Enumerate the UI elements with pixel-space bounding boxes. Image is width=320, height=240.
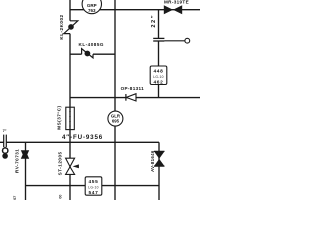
wire center vertical bbox=[114, 0, 116, 200]
svg-text:MR-319TE: MR-319TE bbox=[164, 0, 189, 4]
svg-text:LG-10: LG-10 bbox=[88, 185, 98, 189]
svg-text:448: 448 bbox=[153, 69, 163, 75]
wire lower bus bbox=[26, 185, 160, 187]
svg-text:LG-10: LG-10 bbox=[153, 75, 163, 79]
svg-text:MS(37°C): MS(37°C) bbox=[56, 105, 61, 129]
svg-text:763: 763 bbox=[88, 8, 96, 13]
svg-text:00: 00 bbox=[59, 195, 63, 199]
indicator GLR 695 bbox=[108, 111, 123, 126]
breaker KL-2K002 bbox=[64, 21, 78, 34]
wire right lower vertical bbox=[158, 142, 160, 200]
svg-text:KL-4085G: KL-4085G bbox=[79, 42, 104, 47]
wire long horizontal bbox=[0, 141, 159, 143]
wire right upper vertical bbox=[158, 10, 160, 98]
wire stub to circles bbox=[4, 147, 6, 148]
terminal open circle bbox=[2, 148, 7, 153]
svg-text:RV-70731: RV-70731 bbox=[15, 149, 20, 173]
capacitor C right bbox=[153, 38, 164, 41]
wire main left vertical bbox=[69, 0, 71, 200]
varistor RV-T0731 bbox=[21, 150, 29, 159]
wire middle bus bbox=[70, 97, 200, 99]
svg-text:695: 695 bbox=[112, 119, 120, 124]
indicator GRP 763 bbox=[82, 0, 101, 14]
wire capacitor stub right bbox=[164, 40, 185, 42]
svg-text:547: 547 bbox=[88, 190, 98, 196]
svg-text:4″-FU-9356: 4″-FU-9356 bbox=[62, 134, 103, 141]
box 455 LG-10 547 bbox=[85, 177, 102, 196]
svg-text:22″: 22″ bbox=[151, 14, 157, 28]
capacitor C left bbox=[4, 135, 7, 147]
svg-text:462: 462 bbox=[153, 79, 163, 85]
svg-text:7″: 7″ bbox=[3, 129, 7, 133]
terminal circle right bbox=[185, 38, 190, 43]
svg-text:AV-81646: AV-81646 bbox=[150, 150, 155, 172]
wire top horizontal bus bbox=[70, 9, 200, 11]
svg-text:07: 07 bbox=[13, 196, 17, 200]
svg-text:455: 455 bbox=[88, 179, 98, 185]
triac ST-12005 bbox=[66, 158, 79, 174]
surge suppressor MR-319TE bowtie bbox=[164, 5, 182, 14]
svg-text:KL-2K002: KL-2K002 bbox=[59, 14, 64, 39]
terminal filled circle bbox=[2, 153, 8, 159]
box 448 LG-10 462 bbox=[150, 66, 167, 85]
svg-text:OP-81311: OP-81311 bbox=[121, 86, 145, 91]
fuse MS(37°C) bbox=[66, 107, 75, 129]
diode OP-81311 bbox=[126, 94, 136, 101]
wire RV vertical bbox=[25, 142, 27, 200]
wire branch KL-4085 bbox=[70, 53, 115, 55]
diode pair AV-81646 bbox=[154, 151, 165, 166]
svg-text:ST-12005: ST-12005 bbox=[58, 151, 63, 175]
breaker KL-4085G bbox=[82, 49, 93, 58]
